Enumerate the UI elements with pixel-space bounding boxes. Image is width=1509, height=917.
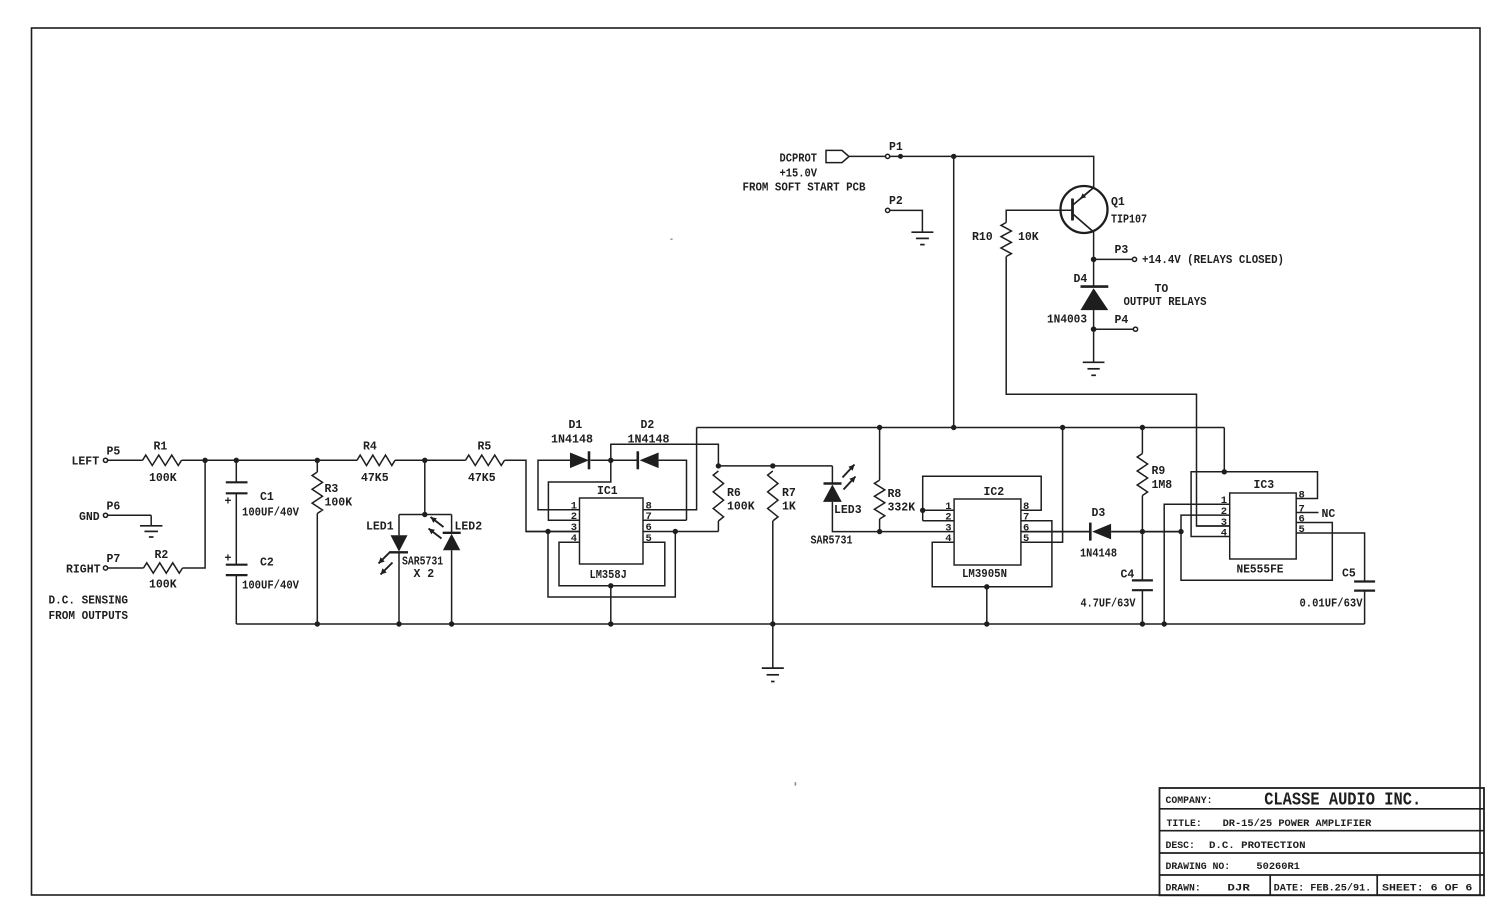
wire IC2 pin2 stub [923,520,954,522]
svg-text:LED2: LED2 [455,521,483,534]
svg-text:DESC:: DESC: [1166,840,1195,851]
wire IC3 pin7 NC [1296,512,1318,514]
svg-text:P6: P6 [107,501,121,514]
junction dot rail R7 [770,621,775,626]
svg-text:DJR: DJR [1227,883,1250,895]
LED LED3 [823,484,842,502]
wire IC3 pin3 stub [1197,525,1230,527]
transistor Q1 emitter [1074,188,1094,205]
svg-text:P7: P7 [107,553,121,566]
LED LED2 [443,533,461,550]
title block drawing row [1166,861,1300,873]
svg-text:LM3905N: LM3905N [962,568,1007,581]
capacitor C2 labels [242,556,299,592]
svg-text:TIP107: TIP107 [1111,214,1147,227]
svg-text:IC2: IC2 [984,486,1005,499]
resistor R10 [1001,223,1011,257]
junction dot P4 node [1091,326,1097,332]
diode D3 [1090,523,1111,541]
svg-text:P4: P4 [1115,314,1129,327]
wire main to R3 [316,460,318,472]
resistor R10 labels [972,231,1039,244]
wire R5 to IC1 pin3 [505,460,580,531]
svg-text:P1: P1 [889,141,903,154]
svg-text:LED1: LED1 [366,521,394,534]
svg-text:D.C. SENSING: D.C. SENSING [49,594,129,607]
title block grid [1160,788,1485,895]
svg-text:LEFT: LEFT [72,456,100,469]
svg-text:P2: P2 [889,195,903,208]
wire P5 to R1 [108,459,143,461]
wire IC1 pin4 inner box [559,542,665,586]
diode D3 labels [1080,507,1117,560]
LED LED1 arrows [379,552,393,575]
junction dot pin3 [545,529,550,534]
wire R3 to bottom rail [316,514,318,625]
svg-text:47K5: 47K5 [468,472,496,485]
IC1 pin numbers right [646,501,652,545]
wire IC1 outer box pin3 to pin6 [548,532,675,598]
junction dot at P1 [898,154,903,159]
svg-text:50260R1: 50260R1 [1256,861,1300,873]
svg-text:DRAWN:: DRAWN: [1166,883,1201,894]
junction dot rail IC1 [608,621,613,626]
IC3 pin numbers left [1221,495,1227,539]
connector pin P1 [886,141,903,158]
connector pin P4 [1115,314,1138,331]
ground at P6 [140,526,163,537]
wire R4 to R5 [395,459,466,461]
IC1 pin numbers left [571,501,577,545]
svg-text:NC: NC [1322,508,1336,521]
svg-text:FROM SOFT START PCB: FROM SOFT START PCB [743,182,866,195]
resistor R9 labels [1152,465,1173,492]
svg-text:LM358J: LM358J [590,569,627,582]
svg-text:R5: R5 [478,440,492,453]
svg-text:SAR5731: SAR5731 [811,535,853,548]
wire IC1 pin7 stub [643,519,687,521]
svg-text:D2: D2 [641,419,655,432]
ground at P2 [911,232,933,244]
capacitor C5 [1354,582,1375,591]
port GND [79,511,100,524]
junction dot IC3 pin2 node [1178,529,1183,534]
timer IC2 box [954,499,1021,565]
wire P3 node to D4 [1093,259,1095,286]
IC3 pin numbers right [1299,489,1305,536]
resistor R3 labels [325,483,353,509]
junction dot C4 rail [1140,621,1145,626]
wire P6 to ground [108,515,152,526]
wire to LED2 [451,515,453,533]
wire inner box to bottom rail [610,586,612,624]
connector pin P7 [103,553,120,570]
IC2 pin numbers left [945,501,951,545]
resistor R7 [768,471,778,521]
svg-text:100K: 100K [727,501,755,514]
wire Q1 collector down [1093,232,1095,259]
wire R7 ground drop [772,624,774,668]
wire to LED1 [398,515,400,536]
resistor R2 [144,563,183,573]
wire C4 to rail [1141,590,1143,624]
wire P1 to Q1 emitter corner [890,156,1094,187]
port RIGHT [66,563,101,576]
wire to P4 [1094,328,1134,330]
svg-text:100K: 100K [149,579,177,592]
wire IC2 top box [923,476,1041,520]
svg-text:R4: R4 [363,440,377,453]
svg-text:47K5: 47K5 [361,472,389,485]
wire R10 bottom to IC3 pin3 net [1006,257,1229,527]
LED LED3 label [834,504,862,517]
svg-text:R1: R1 [154,440,168,453]
connector pin P5 [103,445,120,462]
junction dot P1 node [951,154,956,159]
connector pin P3 [1115,244,1137,262]
capacitor C4 labels [1081,568,1136,610]
port LEFT [72,456,100,469]
resistor R7 labels [782,487,796,514]
junction dot R7 top [770,463,775,468]
wire R6 bottom [717,521,719,532]
svg-text:R7: R7 [782,487,796,500]
resistor R4 labels [361,440,389,485]
timer IC3 box [1230,493,1297,559]
svg-text:1K: 1K [782,501,796,514]
diode D4 labels [1047,273,1087,326]
wire to P3 [1094,258,1133,260]
junction dot inner box bottom [608,583,613,588]
wire D1 to junction [591,459,638,461]
wire IC3 pin1 to ground rail [1164,504,1230,624]
wire R8 top [879,428,881,481]
junction dot rail R3 [315,621,320,626]
junction dot P1 rail [951,425,956,430]
svg-text:FROM OUTPUTS: FROM OUTPUTS [49,610,129,623]
resistor R9 [1137,454,1147,496]
junction node LED join [422,458,427,463]
note TO OUTPUT RELAYS [1124,283,1207,309]
wire IC3 bottom box pin2 to pin6 [1181,523,1332,581]
junction dot P3 node [1091,257,1097,263]
wire R2 up to main line [183,460,206,568]
wire IC2 ground to rail [986,587,988,624]
junction dot rail LED2 [449,621,454,626]
junction dot IC2 ground [984,584,989,589]
junction dot pin5 rail [1060,425,1065,430]
transistor Q1 labels [1111,196,1147,227]
resistor R4 [357,455,395,465]
wire LED2 to bottom rail [451,550,453,624]
svg-text:DATE: FEB.25/91.: DATE: FEB.25/91. [1274,883,1372,894]
title block date cell [1274,883,1372,894]
svg-text:4: 4 [571,533,577,545]
wire R9 top [1141,428,1143,454]
svg-text:4: 4 [945,533,951,545]
svg-text:SHEET: 6 OF 6: SHEET: 6 OF 6 [1382,883,1473,894]
wire D1D2 junction to pin2 box [548,460,610,520]
junction dot R9 C4 [1140,529,1145,534]
ground below R7 [762,668,784,681]
svg-text:P5: P5 [107,445,121,458]
junction dot LED tee [422,512,427,517]
transistor Q1 circle [1061,186,1108,233]
wire R7 to bottom rail [772,521,774,624]
svg-text:100UF/40V: 100UF/40V [242,580,299,593]
svg-text:D3: D3 [1092,507,1106,520]
junction node R2 join [202,458,207,463]
note D.C. SENSING [49,594,129,623]
resistor R6 labels [727,487,755,514]
svg-text:10K: 10K [1018,231,1039,244]
resistor R8 labels [888,488,916,514]
wire LED1 to bottom rail [398,552,400,624]
wire C1 to C2 [235,493,237,564]
svg-text:Q1: Q1 [1111,196,1125,209]
wire R8 bottom [879,519,881,532]
svg-text:R8: R8 [888,488,902,501]
wire to LED3 [831,466,833,484]
svg-text:5: 5 [646,533,652,545]
svg-text:C5: C5 [1342,567,1356,580]
svg-text:DCPROT: DCPROT [780,153,818,166]
wire IC2 pin4 bottom box [932,521,1052,587]
transistor Q1 collector [1074,215,1094,233]
LED LED2 label [455,521,483,534]
wire D1D2 junction up to R6 feed [611,444,719,466]
wire R6 top row [718,465,832,467]
wire IC1 pin1 box to D1 [538,460,580,510]
svg-text:D1: D1 [569,419,583,432]
diode D2 [638,451,659,469]
junction dot IC3 top box [1222,469,1227,474]
junction dot R8 bottom [877,529,882,534]
svg-text:100UF/40V: 100UF/40V [242,506,299,519]
wire IC3 pin5 to C5 [1296,533,1364,582]
LED LED3 arrows [843,465,856,490]
svg-text:DR-15/25 POWER AMPLIFIER: DR-15/25 POWER AMPLIFIER [1223,818,1372,830]
wire LED tee bar [399,514,452,516]
wire top rail [697,427,1225,429]
wire IC1 pin6 to R6 [643,531,718,533]
junction node C1 join [234,458,239,463]
op-amp IC1 part number LM358J [590,569,627,582]
svg-text:1N4148: 1N4148 [1080,547,1117,560]
wire LED junction down [424,460,426,514]
title block desc row [1166,840,1306,852]
svg-text:TITLE:: TITLE: [1167,818,1202,829]
svg-text:C2: C2 [260,556,274,569]
wire IC3 top box pin4 to pin8 [1191,472,1317,537]
resistor R8 [874,480,884,519]
timer IC3 part number NE555FE [1237,564,1284,577]
wire D2 anode to IC1 pin7 [659,460,687,520]
stray mark [670,238,796,785]
svg-text:COMPANY:: COMPANY: [1166,795,1213,806]
diode D1 labels [551,419,593,447]
wire Q1 base to R10 [1006,210,1072,222]
junction dot rail IC2 [984,621,989,626]
svg-text:R3: R3 [325,483,339,496]
svg-text:R6: R6 [727,487,741,500]
resistor R5 [466,455,505,465]
svg-text:X 2: X 2 [414,568,435,581]
resistor R2 labels [149,549,177,592]
junction dot R6 top [716,463,721,468]
svg-text:CLASSE AUDIO INC.: CLASSE AUDIO INC. [1264,791,1421,811]
svg-text:C1: C1 [260,491,274,504]
svg-text:4: 4 [1221,527,1227,539]
svg-text:DRAWING NO:: DRAWING NO: [1166,861,1231,872]
timer IC2 label [984,486,1005,499]
resistor R6 [713,471,723,521]
svg-text:C4: C4 [1121,568,1135,581]
connector pin P6 [103,501,120,518]
wire R1 to R4 [182,459,358,461]
capacitor C1 labels [242,491,299,519]
diode D2 labels [628,419,670,447]
ground at D4 [1083,362,1105,375]
title block sheet cell [1382,883,1473,894]
svg-text:100K: 100K [325,496,353,509]
capacitor C1 [225,482,248,508]
svg-text:+14.4V (RELAYS CLOSED): +14.4V (RELAYS CLOSED) [1142,254,1284,267]
svg-text:NE555FE: NE555FE [1237,564,1284,577]
svg-text:R10: R10 [972,231,993,244]
junction dot R9 rail [1140,425,1145,430]
svg-text:5: 5 [1023,533,1029,545]
wire IC2 pin5 to top rail [1021,428,1063,543]
svg-text:LED3: LED3 [834,504,862,517]
title block company row [1166,791,1422,811]
svg-text:+: + [225,496,232,509]
op-amp IC1 label [597,485,618,498]
svg-text:1N4148: 1N4148 [551,433,593,446]
resistor R3 [312,472,322,514]
junction dot IC2 pin1 [920,508,925,513]
note SAR5731 X2 [402,555,443,581]
timer IC3 label [1254,479,1275,492]
junction dot pin1 rail [1162,621,1167,626]
junction node R3 join [315,458,320,463]
wire D3 to IC3 node [1111,531,1181,533]
svg-text:D4: D4 [1074,273,1088,286]
svg-text:SAR5731: SAR5731 [402,555,443,568]
svg-text:OUTPUT RELAYS: OUTPUT RELAYS [1124,296,1207,309]
junction dot R8 top [877,425,882,430]
diode D1 [570,451,589,469]
junction dot rail LED1 [396,621,401,626]
wire IC1 pin3 stub [526,531,580,533]
title block title row [1167,818,1373,830]
wire P2 to ground [890,210,923,232]
svg-text:100K: 100K [149,472,177,485]
svg-text:RIGHT: RIGHT [66,563,101,576]
resistor R1 [143,455,182,465]
capacitor C5 labels [1300,567,1363,610]
wire IC1 pin8 to top rail [643,428,697,510]
svg-text:5: 5 [1299,524,1305,536]
svg-text:1M8: 1M8 [1152,479,1173,492]
diode D4 [1081,287,1109,330]
svg-text:1N4003: 1N4003 [1047,313,1087,326]
svg-text:GND: GND [79,511,100,524]
svg-text:IC1: IC1 [597,485,618,498]
wire IC2 pin6 to D3 [1021,531,1090,533]
LED LED1 [390,535,408,552]
timer IC2 part number LM3905N [962,568,1007,581]
connector pin P2 [886,195,903,212]
wire IC2 pin1 stub [923,509,954,511]
svg-text:P3: P3 [1115,244,1129,257]
wire main to C1 [235,460,237,482]
wire P1 node down to top rail [953,156,955,427]
resistor R5 labels [468,440,496,485]
capacitor C4 [1132,580,1153,590]
wire LED3 to IC2 pin3 line [832,502,954,532]
svg-text:TO: TO [1155,283,1169,296]
junction dot D1-D2 [608,458,613,463]
note SAR5731 led3 [811,535,853,548]
op-amp IC1 box [580,498,644,564]
svg-text:D.C. PROTECTION: D.C. PROTECTION [1209,840,1306,852]
svg-text:332K: 332K [888,501,916,514]
svg-text:8: 8 [1299,489,1305,501]
wire R9 to C4 [1141,496,1143,581]
junction dot pin6 [673,529,678,534]
net label DCPROT text [743,153,866,195]
net label DCPROT flag [826,150,849,162]
wire bottom rail [236,623,1364,625]
LED LED1 label [366,521,394,534]
wire DCPROT to P1 [849,155,886,157]
wire IC3 pin2 to node [1181,515,1230,532]
transistor Q1 base bar [1071,199,1074,221]
svg-text:+15.0V: +15.0V [780,168,818,181]
svg-text:R2: R2 [155,549,169,562]
capacitor C2 [225,553,248,575]
svg-text:0.01UF/63V: 0.01UF/63V [1300,597,1363,610]
note NC [1322,508,1336,521]
svg-text:4.7UF/63V: 4.7UF/63V [1081,597,1136,610]
title block drawn cell [1166,883,1251,895]
wire P4 node to ground [1093,329,1095,362]
svg-text:R9: R9 [1152,465,1166,478]
net label +14.4V [1142,254,1284,267]
wire P7 to R2 [108,567,144,569]
LED LED2 arrows [429,517,444,539]
IC2 pin numbers right [1023,501,1029,545]
svg-text:IC3: IC3 [1254,479,1275,492]
wire C2 to bottom rail [235,575,237,624]
wire top rail corner to IC3 top box [1223,428,1225,472]
wire C5 to rail [1364,591,1366,624]
resistor R1 labels [149,440,177,485]
